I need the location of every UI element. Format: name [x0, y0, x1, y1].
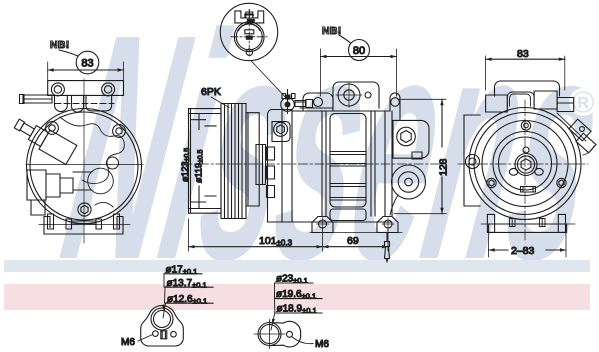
top bracket right bolt	[102, 83, 115, 96]
rear view centerlines	[458, 100, 588, 240]
pulley disc outline	[189, 109, 222, 214]
right lug hole	[391, 98, 400, 107]
face bolt upper left	[46, 122, 59, 135]
bottom edge	[292, 221, 392, 223]
rear bottom axis	[481, 223, 575, 225]
watermark registered trademark symbol	[569, 88, 597, 116]
svg-text:R: R	[577, 95, 589, 112]
casting contour small arc	[95, 202, 113, 207]
detail sensor rect	[245, 30, 254, 34]
NB! leader (middle)	[339, 35, 350, 43]
base plate inner feet	[66, 219, 102, 229]
detail balloon circle	[220, 3, 277, 60]
right side fitting block lower	[576, 133, 596, 153]
suction fitting block	[27, 170, 73, 200]
dimension line 2-83	[489, 249, 566, 251]
suction elbow	[73, 172, 91, 190]
balloon 80	[349, 40, 370, 61]
pulley disc steps	[189, 114, 222, 209]
right side fitting circle	[580, 127, 585, 132]
right flange bore	[260, 325, 279, 344]
svg-text:69: 69	[347, 235, 359, 247]
clutch front plate	[246, 113, 259, 206]
face bolt upper right	[113, 125, 126, 138]
front housing face	[268, 110, 313, 223]
body ladder frame	[322, 111, 375, 216]
left flange small hole left	[153, 331, 159, 337]
rail left tab	[487, 214, 494, 232]
rear bolt bottom right	[557, 178, 566, 187]
hub outer circle	[515, 154, 537, 176]
bottom base plate	[44, 217, 123, 235]
left foot hole	[317, 218, 329, 230]
front port hex bolt	[274, 122, 288, 136]
rear bolt bottom left	[487, 178, 496, 187]
svg-text:2–83: 2–83	[511, 245, 535, 257]
charge valve body	[281, 98, 295, 112]
detail yoke clamp	[235, 11, 264, 23]
rear fitting hex bolt	[397, 127, 416, 146]
muffler outer circle	[392, 165, 426, 199]
casting contour	[60, 117, 124, 184]
rear scallop plate	[499, 137, 552, 190]
stud below right foot	[385, 233, 390, 262]
top bracket lower tabs	[54, 95, 111, 112]
svg-text:128: 128	[438, 158, 450, 176]
right flange boss	[258, 323, 281, 346]
6PK leader	[211, 97, 229, 108]
left mounting arm	[20, 95, 53, 104]
front view top bracket	[48, 81, 124, 96]
middle left foot	[312, 217, 333, 233]
extension lines 2-83	[489, 233, 566, 257]
base plate left tab	[48, 214, 54, 229]
top lug small hole	[365, 92, 371, 98]
detail screw head	[245, 10, 254, 20]
svg-text:M6: M6	[315, 339, 329, 350]
detail crosshair	[231, 19, 267, 56]
charge valve stem	[282, 90, 295, 114]
rail screw right	[540, 219, 546, 227]
rail right tab	[558, 214, 565, 232]
detail bottom nut	[246, 49, 252, 55]
left flange body	[141, 306, 184, 347]
feet base line	[310, 232, 402, 234]
left flange boss	[151, 308, 173, 330]
base plate right tab	[114, 214, 120, 229]
dimension line 101	[189, 246, 389, 248]
charge valve screw	[285, 95, 291, 100]
right mounting lug	[390, 93, 400, 111]
muffler mid circle	[398, 172, 418, 192]
dimension line 128	[441, 99, 443, 213]
right flange small hole	[287, 331, 293, 337]
svg-text:NB!: NB!	[50, 39, 70, 51]
left flange square port	[161, 331, 167, 339]
top lug big hole	[336, 83, 362, 108]
body right edge	[385, 111, 400, 216]
rear bolt top	[521, 121, 530, 130]
bracket hidden edge dashed	[55, 103, 114, 105]
body ladder rungs	[330, 114, 366, 208]
right foot hole	[382, 218, 394, 230]
svg-text:80: 80	[353, 45, 365, 57]
hub oval left	[509, 168, 517, 175]
rear ring r32	[493, 132, 557, 196]
hub mid circle	[517, 156, 534, 173]
detail port inner arc	[239, 24, 260, 31]
hub small hole top	[523, 147, 529, 153]
left flange leader	[163, 274, 166, 318]
front port boss	[272, 122, 290, 142]
bottom axis line	[39, 224, 130, 226]
rear ring r43	[482, 121, 568, 207]
hub hex	[521, 159, 531, 170]
rear bottom tag	[521, 187, 536, 193]
body top edge	[292, 108, 390, 111]
dimension line 83 left	[48, 69, 124, 71]
right side fitting arc	[583, 146, 594, 155]
blue stripe	[4, 260, 590, 272]
right flange leader	[271, 283, 275, 330]
detail clamp dark block	[247, 19, 255, 23]
balloon 83	[76, 51, 99, 74]
side plate hole	[466, 155, 480, 169]
dimension line 80	[321, 56, 397, 58]
muffler inner circle	[405, 178, 413, 186]
rear bracket left bar	[486, 95, 508, 112]
diagonal relief valve stem	[11, 114, 77, 165]
muffler pipe	[390, 195, 398, 215]
svg-text:83: 83	[517, 48, 529, 60]
rail screw left	[510, 219, 516, 227]
rear top bracket slot	[507, 92, 534, 106]
left mounting lug	[303, 93, 333, 111]
right flange body	[270, 321, 301, 347]
NB! leader (left)	[59, 50, 78, 56]
clutch hub	[256, 145, 266, 185]
extension lines 101/69	[189, 219, 389, 251]
right side fitting block upper	[569, 119, 591, 141]
top mounting lug	[333, 82, 379, 108]
pulley belt grooves 6PK	[221, 104, 246, 219]
rear outer circle	[469, 108, 581, 220]
left flange bore	[154, 311, 171, 328]
rear second circle	[474, 113, 576, 215]
svg-text:83: 83	[81, 58, 93, 70]
rear fitting lower tab	[412, 152, 422, 159]
top bracket left bolt	[51, 83, 64, 96]
front view inner rim circle	[30, 112, 138, 220]
pink stripe	[4, 284, 590, 310]
left flange small hole right	[171, 331, 177, 337]
housing face ribs	[267, 147, 275, 198]
right flange crosshair	[254, 320, 285, 349]
svg-text:M6: M6	[121, 337, 135, 348]
valve support pin	[295, 100, 313, 108]
left lug hole	[314, 98, 323, 107]
right side pipe leader	[557, 113, 586, 141]
front view centerlines	[26, 79, 143, 243]
bottom hex bolt	[78, 203, 91, 216]
rear fitting block	[393, 120, 429, 158]
dimension line 83 right	[486, 58, 565, 60]
middle view shaft centerline	[183, 163, 443, 165]
extension lines 83 left	[48, 62, 124, 81]
detail port mid circle	[236, 24, 262, 50]
front view outer housing circle	[27, 109, 142, 224]
detail port outer circle	[234, 22, 264, 52]
lower left block	[31, 200, 45, 215]
middle right foot	[377, 217, 398, 233]
svg-text:6PK: 6PK	[201, 86, 221, 98]
detail leader line	[251, 61, 288, 100]
rear bracket right bar	[534, 91, 557, 109]
extension lines 83 right	[486, 56, 565, 90]
hub oval right	[535, 168, 543, 175]
rear bracket right end	[557, 98, 574, 112]
detail center dark blob	[246, 36, 253, 40]
extension lines 128	[394, 99, 446, 213]
extension lines 80	[321, 49, 397, 96]
face small port circle	[107, 157, 119, 169]
rear bottom rail	[489, 224, 567, 232]
rear top bracket	[495, 81, 560, 96]
rear left side plate	[464, 115, 480, 206]
